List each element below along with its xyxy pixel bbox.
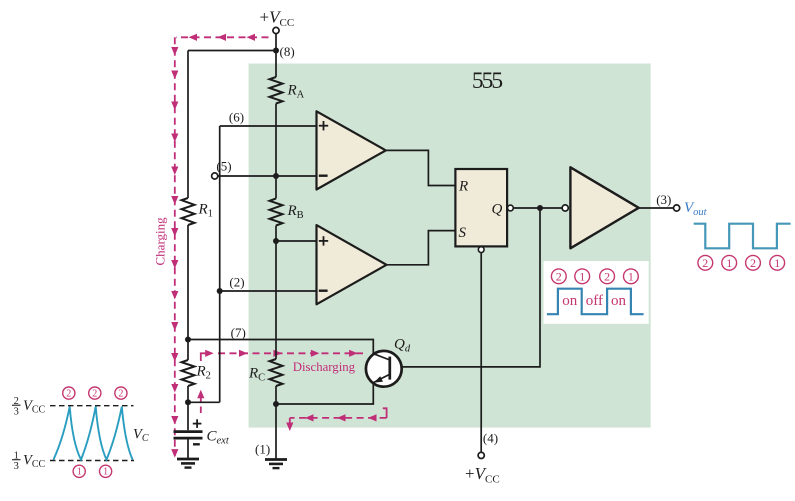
svg-text:(5): (5): [216, 159, 231, 174]
svg-text:VC: VC: [133, 427, 149, 445]
terminal pin 5 (open circle): [212, 173, 218, 179]
resistor R2: [182, 360, 195, 386]
svg-text:1: 1: [77, 467, 82, 478]
svg-text:(2): (2): [229, 275, 244, 290]
wire base to Q node: [401, 208, 541, 367]
resistor R1: [182, 198, 195, 225]
wire R1 to R2: [187, 225, 189, 360]
svg-text:R: R: [458, 179, 468, 195]
circled 1 marker (Vout): [722, 255, 737, 270]
discharging return path below transistor: [286, 408, 386, 431]
charging path dashed arrows (left vertical): [171, 37, 178, 457]
charging path dashed arrows (top horizontal): [176, 34, 269, 41]
svg-text:Charging: Charging: [153, 217, 168, 266]
ground pin 1: [265, 458, 287, 461]
wire pin8 to left rail: [188, 50, 276, 52]
svg-text:1: 1: [774, 256, 780, 270]
wire comparator 2 output to latch S: [387, 231, 456, 265]
op-amp comparator 2: [317, 225, 387, 304]
wire comparator 1 output to latch R: [386, 150, 456, 185]
svg-text:R1: R1: [198, 202, 213, 220]
wire pin6/pin2 vertical: [219, 126, 221, 402]
resistor RA: [270, 77, 283, 104]
node pin 8 junction: [273, 48, 279, 54]
node RA-RB (2/3 VCC): [273, 173, 279, 179]
svg-text:1: 1: [726, 256, 732, 270]
comparator 1 minus input sign: [319, 174, 328, 176]
svg-text:2: 2: [556, 269, 562, 283]
svg-text:(1): (1): [255, 442, 270, 457]
circled 1 marker (Vout): [770, 255, 785, 270]
svg-text:Vout: Vout: [684, 200, 708, 218]
wire pin 6 line to comparator 1 +: [220, 125, 318, 127]
wire latch bottom to pin 4: [480, 253, 482, 453]
terminal +VCC (open circle): [273, 27, 279, 33]
svg-text:1: 1: [628, 269, 634, 283]
svg-text:(6): (6): [229, 110, 244, 125]
svg-text:VCC: VCC: [23, 398, 46, 416]
node 2/3 VCC dashed level line: [50, 405, 134, 407]
svg-text:2: 2: [66, 389, 71, 400]
capacitor voltage waveform VC: [54, 407, 133, 460]
wire pin 5 to comparator 1 -: [218, 175, 318, 177]
svg-text:3: 3: [14, 461, 19, 472]
wire to R2 bottom: [188, 401, 220, 403]
wire RC to ground pin 1: [275, 386, 277, 459]
node Q junction: [537, 205, 543, 211]
on-off waveform: [547, 289, 644, 315]
circled 2 markers above VC peaks: [63, 387, 75, 399]
op-amp output buffer: [570, 167, 638, 248]
discharging path: up arrow from capacitor: [197, 390, 204, 413]
svg-text:off: off: [586, 293, 603, 309]
svg-text:2: 2: [750, 256, 756, 270]
svg-text:Discharging: Discharging: [293, 360, 356, 374]
wire pin 2 line to comparator 2 -: [220, 290, 318, 292]
resistor RB: [270, 199, 283, 226]
wire pin 7 to transistor collector: [188, 340, 373, 354]
svg-text:on: on: [562, 293, 578, 309]
label 1/3 VCC: [12, 450, 46, 472]
circled 1 markers below VC valleys: [73, 465, 85, 477]
svg-text:555: 555: [472, 68, 503, 94]
wire Q to buffer: [513, 207, 562, 209]
node RC bottom / emitter return: [273, 401, 279, 407]
svg-text:2: 2: [604, 269, 610, 283]
latch (S-R flip-flop) box: [455, 169, 507, 246]
svg-text:VCC: VCC: [23, 453, 46, 471]
on-off inset white box: [544, 261, 649, 324]
latch Q output bubble: [508, 205, 514, 211]
svg-text:2: 2: [92, 389, 97, 400]
wire cap to ground: [187, 438, 189, 458]
svg-text:on: on: [611, 293, 627, 309]
svg-text:(4): (4): [483, 431, 498, 446]
node R2 bottom / cap top junction: [185, 399, 191, 405]
capacitor minus sign: [193, 443, 200, 445]
terminal pin 3 (open circle): [674, 205, 680, 211]
wire RA to RB: [275, 104, 277, 199]
wire left rail down to R1: [187, 51, 189, 199]
svg-text:1: 1: [103, 467, 108, 478]
label 2/3 VCC: [12, 396, 46, 418]
capacitor Cext: [174, 432, 203, 439]
svg-text:1: 1: [579, 269, 585, 283]
op-amp comparator 1: [317, 111, 386, 189]
IC body 555 (green block): [249, 64, 651, 428]
node RB-RC (1/3 VCC): [273, 238, 279, 244]
svg-text:S: S: [459, 225, 467, 241]
capacitor plus sign: [193, 419, 202, 428]
circled 1 marker (inset): [575, 269, 590, 284]
discharging path: horizontal dashed arrows to transistor: [218, 350, 365, 357]
svg-text:2: 2: [118, 389, 123, 400]
circled 2 marker (Vout): [698, 255, 713, 270]
circled 1 marker (inset): [624, 269, 639, 284]
discharging path: elbow at R2 top: [201, 350, 214, 361]
circled 2 marker (inset): [551, 269, 566, 284]
svg-text:(8): (8): [280, 44, 295, 59]
wire R2 to capacitor: [187, 386, 189, 430]
ground below Cext: [177, 458, 199, 461]
svg-text:+VCC: +VCC: [260, 8, 295, 30]
buffer input bubble: [562, 205, 568, 211]
wire RB-RC node to comparator 2 +: [276, 240, 318, 242]
comparator 2 minus input sign: [319, 290, 328, 292]
resistor RC: [270, 359, 283, 386]
svg-text:(7): (7): [231, 325, 246, 340]
transistor Qd: [366, 351, 402, 387]
node 1/3 VCC dashed level line: [50, 460, 134, 462]
svg-text:3: 3: [14, 406, 19, 417]
comparator 2 plus input sign: [319, 236, 328, 245]
svg-text:Cext: Cext: [207, 429, 230, 447]
terminal pin 4 (open circle): [478, 452, 484, 458]
latch bottom output bubble: [478, 247, 484, 253]
svg-text:(3): (3): [656, 192, 671, 207]
output waveform Vout: [694, 224, 791, 249]
wire emitter to ground rail: [276, 384, 373, 404]
comparator 1 plus input sign: [319, 121, 328, 130]
svg-text:+VCC: +VCC: [465, 464, 500, 486]
wire VCC to RA: [275, 34, 277, 77]
node pin 7 junction on left rail: [185, 337, 191, 343]
svg-text:R2: R2: [196, 364, 211, 382]
svg-text:2: 2: [702, 256, 708, 270]
wire RB to RC: [275, 226, 277, 360]
circled 2 marker (inset): [600, 269, 615, 284]
wire buffer to pin 3: [639, 207, 674, 209]
circled 2 marker (Vout): [746, 255, 761, 270]
svg-text:Q: Q: [492, 202, 503, 218]
node pin 2 junction: [217, 288, 223, 294]
